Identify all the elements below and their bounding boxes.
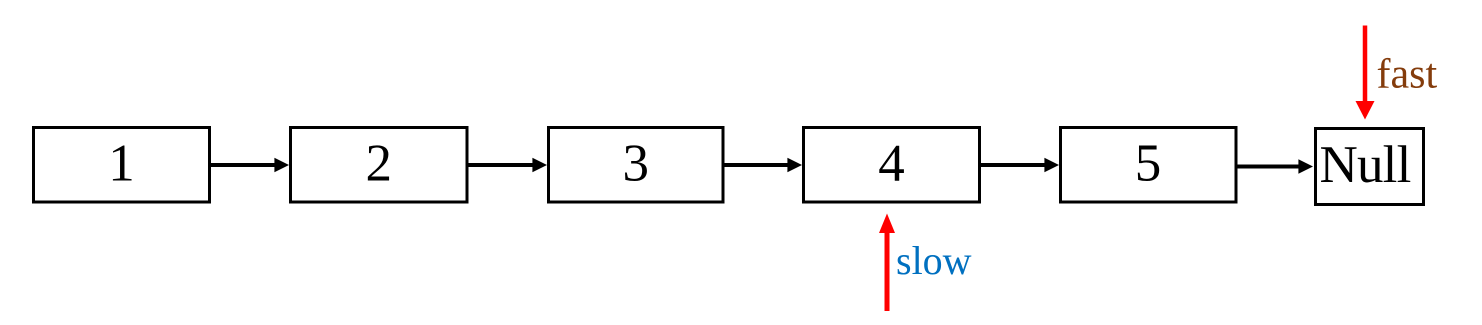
node box 5 bbox=[1061, 128, 1237, 203]
svg-text:5: 5 bbox=[1135, 135, 1162, 193]
wire arrow 4→5 bbox=[980, 158, 1060, 173]
svg-text:4: 4 bbox=[878, 135, 905, 193]
wire arrow 3→4 bbox=[723, 158, 802, 173]
svg-text:fast: fast bbox=[1377, 52, 1438, 98]
node box 4 bbox=[804, 128, 980, 203]
wire arrow 5→Null bbox=[1236, 159, 1313, 174]
svg-text:2: 2 bbox=[366, 135, 393, 193]
node box Null bbox=[1316, 129, 1424, 205]
fast pointer arrow (red, pointing down at Null) bbox=[1356, 26, 1375, 120]
node box 3 bbox=[549, 128, 724, 203]
svg-text:Null: Null bbox=[1319, 136, 1410, 194]
wire arrow 1→2 bbox=[210, 158, 290, 173]
node box 1 bbox=[34, 128, 210, 203]
slow pointer arrow (red, pointing up at box 4) bbox=[879, 214, 895, 312]
svg-text:slow: slow bbox=[896, 238, 972, 283]
node box 2 bbox=[291, 128, 468, 203]
svg-text:1: 1 bbox=[108, 135, 135, 193]
svg-text:3: 3 bbox=[623, 135, 650, 193]
wire arrow 2→3 bbox=[467, 158, 547, 173]
